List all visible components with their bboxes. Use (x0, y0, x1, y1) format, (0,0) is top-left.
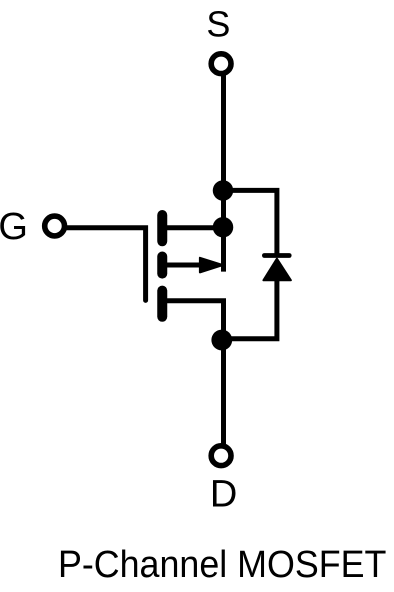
svg-text:D: D (210, 474, 237, 516)
svg-text:S: S (206, 4, 230, 45)
svg-text:P-Channel MOSFET: P-Channel MOSFET (58, 544, 387, 586)
svg-text:G: G (0, 206, 28, 248)
